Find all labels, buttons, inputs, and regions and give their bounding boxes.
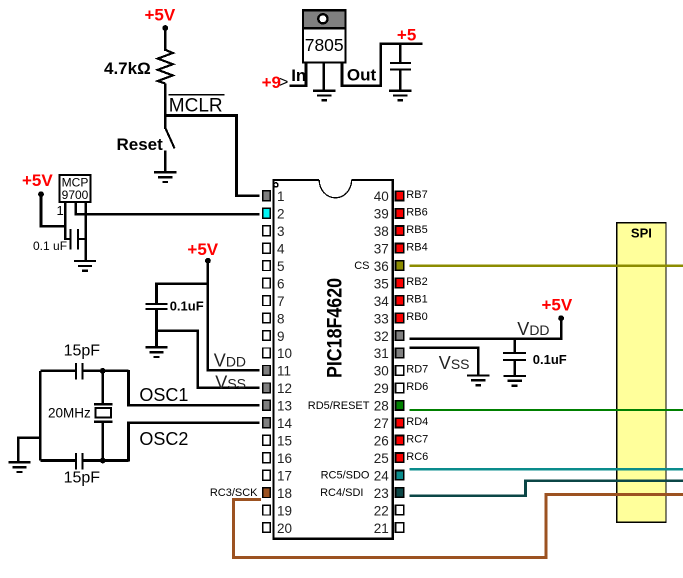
svg-text:6: 6 [277, 276, 285, 291]
power +5V (MCP9700) [22, 171, 53, 197]
svg-text:OSC1: OSC1 [139, 385, 188, 405]
capacitor C1 0.1uF (sensor bypass) [65, 229, 85, 249]
pin 40 (right) [374, 189, 428, 204]
svg-text:20: 20 [277, 521, 292, 536]
pin 22 (right) [374, 503, 404, 518]
svg-text:13: 13 [277, 399, 292, 414]
pin 27 (right) [374, 416, 429, 431]
svg-text:26: 26 [374, 434, 389, 449]
svg-text:RB7: RB7 [406, 189, 427, 201]
wire MCP9700 Vout to pin 2 [76, 213, 259, 216]
svg-text:33: 33 [374, 311, 389, 326]
wire RC4/SDI (pin 23) to SPI [410, 481, 683, 496]
svg-text:7805: 7805 [305, 35, 344, 55]
svg-text:0.1uF: 0.1uF [533, 352, 567, 367]
capacitor C4 (regulator output) [390, 44, 411, 92]
wire CS (pin 36) to SPI [410, 264, 683, 267]
svg-text:>: > [279, 74, 288, 91]
pin 24 (right) [321, 469, 404, 484]
svg-text:SPI: SPI [631, 225, 652, 240]
svg-text:PIC18F4620: PIC18F4620 [323, 278, 347, 378]
pin 20 (left) [263, 521, 292, 536]
power +5V (VDD right) [542, 296, 573, 322]
regulator U2 7805 [302, 10, 347, 62]
svg-text:5: 5 [277, 259, 285, 274]
svg-text:3: 3 [277, 224, 285, 239]
wire Out to +5 node [342, 44, 423, 86]
svg-text:0.1 uF: 0.1 uF [33, 239, 67, 253]
svg-text:18: 18 [277, 486, 292, 501]
svg-text:14: 14 [277, 416, 293, 431]
node dot (OSC1 net) [100, 368, 106, 374]
temperature sensor U3 MCP9700 [60, 175, 91, 202]
capacitor C2 0.1uF [146, 304, 168, 348]
svg-text:RC5/SDO: RC5/SDO [321, 470, 370, 482]
svg-text:37: 37 [374, 242, 389, 257]
svg-text:RD4: RD4 [406, 416, 428, 428]
pin 2 (left) [263, 207, 285, 222]
svg-text:MCLR: MCLR [169, 96, 223, 117]
ground (VSS right) [467, 375, 489, 385]
svg-text:15pF: 15pF [64, 470, 101, 487]
pin 29 (right) [374, 381, 429, 396]
svg-text:28: 28 [374, 399, 389, 414]
svg-text:9: 9 [277, 329, 285, 344]
svg-text:RD6: RD6 [406, 381, 428, 393]
pin 38 (right) [374, 224, 428, 239]
svg-text:RB0: RB0 [406, 311, 427, 323]
wire +5V to R1 [164, 28, 167, 51]
pin 32 (right) [374, 329, 404, 344]
pin 31 (right) [374, 346, 404, 361]
svg-text:+5V: +5V [187, 240, 218, 259]
pin 8 (left) [263, 311, 285, 326]
svg-text:+5: +5 [397, 25, 416, 44]
svg-text:30: 30 [374, 364, 389, 379]
pin 12 (left) [263, 381, 292, 396]
svg-text:31: 31 [374, 346, 389, 361]
wire crystal left rail [39, 371, 42, 461]
svg-text:2: 2 [277, 207, 285, 222]
pin 3 (left) [263, 224, 285, 239]
svg-text:RB4: RB4 [406, 241, 427, 253]
svg-text:RD7: RD7 [406, 364, 428, 376]
node dot (OSC2 net) [100, 458, 106, 464]
svg-text:25: 25 [374, 451, 389, 466]
pin 15 (left) [263, 434, 292, 449]
pin 25 (right) [374, 451, 429, 466]
pin 4 (left) [263, 242, 285, 257]
svg-text:RD5/RESET: RD5/RESET [308, 400, 370, 412]
svg-text:7: 7 [277, 294, 285, 309]
microcontroller U1 PIC18F4620 [273, 178, 392, 539]
pin 39 (right) [374, 206, 428, 221]
svg-text:40: 40 [374, 189, 389, 204]
svg-text:4: 4 [277, 242, 285, 257]
pin 5 (left) [263, 259, 285, 274]
svg-text:VDD: VDD [517, 319, 549, 339]
SPI module box [617, 223, 666, 523]
pin 13 (left) [263, 399, 292, 414]
svg-text:17: 17 [277, 469, 292, 484]
svg-text:CS: CS [354, 260, 369, 272]
ground (C4) [389, 91, 411, 101]
svg-text:20MHz: 20MHz [48, 406, 91, 421]
wire OSC1 to pin 13 [129, 370, 260, 405]
pin 34 (right) [374, 294, 428, 309]
pin 10 (left) [263, 346, 292, 361]
wire rail to ground [18, 438, 40, 463]
svg-text:22: 22 [374, 503, 389, 518]
wire MCLR node to pin 1 [165, 116, 259, 196]
wire OSC2 to pin 14 [129, 423, 260, 462]
pin 18 (left) [210, 486, 292, 501]
svg-text:12: 12 [277, 381, 292, 396]
svg-text:36: 36 [374, 259, 389, 274]
svg-text:Out: Out [347, 66, 377, 85]
svg-text:Reset: Reset [117, 135, 164, 154]
wire +9 to In pin [290, 85, 308, 88]
svg-text:11: 11 [277, 364, 291, 379]
pin 1 (left) [263, 189, 285, 204]
wire +5V down to VDD pin 11 [208, 261, 259, 371]
power +5V (MCLR pull-up) [145, 5, 176, 31]
svg-text:RC3/SCK: RC3/SCK [210, 487, 258, 499]
ground (C3) [503, 376, 525, 386]
wire RC5/SDO (pin 24) to SPI [410, 468, 683, 470]
svg-text:34: 34 [374, 294, 390, 309]
pin 36 (right) [354, 259, 403, 274]
pin 23 (right) [320, 486, 404, 501]
pin 35 (right) [374, 276, 428, 291]
svg-text:RC7: RC7 [406, 433, 428, 445]
svg-text:RB1: RB1 [406, 294, 427, 306]
svg-text:27: 27 [374, 416, 389, 431]
MCP9700 legs [65, 203, 85, 261]
wire RD5/RESET (pin 28) to SPI [409, 409, 683, 411]
svg-text:24: 24 [374, 469, 390, 484]
ground (MCP9700) [74, 261, 96, 271]
svg-text:15: 15 [277, 434, 292, 449]
wire R1 to MCLR node [164, 84, 167, 117]
wire RC3/SCK (pin 18) to SPI [234, 494, 683, 557]
pin 17 (left) [263, 469, 292, 484]
pin 7 (left) [263, 294, 285, 309]
svg-text:RC4/SDI: RC4/SDI [320, 487, 363, 499]
capacitor C3 0.1uF [503, 339, 526, 377]
resistor R1 4.7k [158, 50, 173, 84]
svg-text:1: 1 [57, 203, 64, 218]
ground (reset switch) [154, 172, 176, 182]
switch Reset [165, 116, 174, 174]
svg-text:VSS: VSS [215, 372, 246, 392]
pin 33 (right) [374, 311, 428, 326]
svg-text:0.1uF: 0.1uF [170, 298, 204, 313]
svg-text:RC6: RC6 [406, 451, 428, 463]
svg-text:RB5: RB5 [406, 224, 427, 236]
svg-text:16: 16 [277, 451, 292, 466]
wire VSS pin 12 [157, 331, 260, 388]
wire VDD pin 32 to +5V [410, 318, 562, 338]
svg-text:RB2: RB2 [406, 276, 427, 288]
svg-text:10: 10 [277, 346, 292, 361]
ground (7805 common) [313, 91, 335, 101]
svg-text:+5V: +5V [542, 296, 573, 315]
svg-text:4.7kΩ: 4.7kΩ [104, 59, 151, 78]
label +9 input [262, 73, 289, 92]
pin 9 (left) [263, 329, 285, 344]
capacitor C5 15pF (top) [40, 363, 128, 379]
wire +5V to MCP9700 pin1 [41, 194, 67, 226]
wire VSS pin 31 to ground [410, 348, 479, 376]
capacitor C6 15pF (bottom) [40, 453, 128, 469]
pin 14 (left) [263, 416, 293, 431]
svg-text:23: 23 [374, 486, 389, 501]
svg-text:35: 35 [374, 276, 389, 291]
pin 37 (right) [374, 241, 428, 256]
pin 6 (left) [263, 276, 285, 291]
ground (crystal) [8, 462, 30, 472]
svg-text:38: 38 [374, 224, 389, 239]
pin 19 (left) [263, 503, 292, 518]
svg-text:VDD: VDD [214, 351, 246, 371]
svg-text:8: 8 [277, 311, 285, 326]
svg-text:21: 21 [374, 521, 389, 536]
svg-text:32: 32 [374, 329, 389, 344]
svg-text:39: 39 [374, 207, 389, 222]
svg-text:OSC2: OSC2 [139, 429, 188, 449]
pin 26 (right) [374, 433, 429, 448]
ground (C2) [145, 347, 167, 357]
pin 16 (left) [263, 451, 292, 466]
svg-text:+5V: +5V [22, 171, 53, 190]
svg-text:VSS: VSS [439, 353, 470, 373]
svg-text:29: 29 [374, 381, 389, 396]
wire branch to C2 [157, 284, 208, 304]
power +5V (VDD left) [187, 240, 218, 263]
pin 11 (left) [263, 364, 291, 379]
svg-text:9700: 9700 [62, 188, 89, 202]
svg-text:+5V: +5V [145, 5, 176, 24]
svg-text:15pF: 15pF [64, 342, 101, 359]
svg-text:In: In [291, 66, 306, 85]
svg-text:RB6: RB6 [406, 206, 427, 218]
pin 28 (right) [308, 399, 404, 414]
crystal X1 [94, 371, 113, 461]
svg-text:1: 1 [277, 189, 285, 204]
net label MCLR (active low) [169, 95, 225, 117]
svg-text:19: 19 [277, 503, 292, 518]
7805 pin legs [306, 62, 342, 91]
pin 30 (right) [374, 364, 429, 379]
pin 21 (right) [374, 521, 404, 536]
